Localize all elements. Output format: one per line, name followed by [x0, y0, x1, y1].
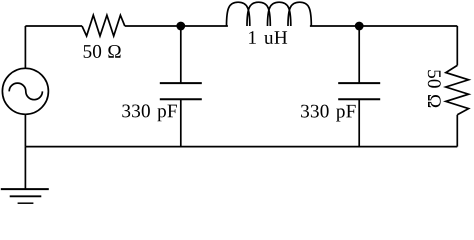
- label L1 value 1 uH: [249, 31, 287, 44]
- resistor R2: [446, 65, 469, 114]
- inductor L1: [227, 2, 312, 26]
- bottom rail wire: [25, 146, 457, 148]
- wire source top to rail: [24, 26, 26, 68]
- wire top-left to resistor: [25, 25, 82, 27]
- capacitor C1 bottom lead: [180, 99, 182, 146]
- wire top-right corner down to R2: [456, 26, 458, 65]
- capacitor C1 top lead: [180, 26, 182, 83]
- label C1 value 330 pF: [122, 104, 177, 121]
- label R2 value 50 ohm rotated: [428, 70, 441, 107]
- label C2 value 330 pF: [301, 105, 356, 122]
- capacitor C1: [160, 83, 202, 99]
- wire inductor to node B: [310, 25, 359, 27]
- wire R2 to bottom-right corner: [456, 115, 458, 147]
- wire node A to inductor: [181, 25, 228, 27]
- wire rail to ground: [24, 147, 26, 190]
- node A junction dot: [176, 22, 185, 31]
- resistor R1: [82, 15, 125, 36]
- voltage source V1: [2, 68, 48, 114]
- capacitor C2 top lead: [358, 26, 360, 83]
- wire resistor to node A: [125, 25, 181, 27]
- capacitor C2: [338, 83, 380, 99]
- capacitor C2 bottom lead: [358, 99, 360, 146]
- ground: [1, 188, 49, 190]
- label R1 value 50 ohm: [84, 45, 121, 58]
- wire source bottom to rail: [24, 114, 26, 146]
- wire node B to top-right corner: [359, 25, 457, 27]
- node B junction dot: [355, 22, 364, 31]
- sine symbol: [9, 83, 42, 100]
